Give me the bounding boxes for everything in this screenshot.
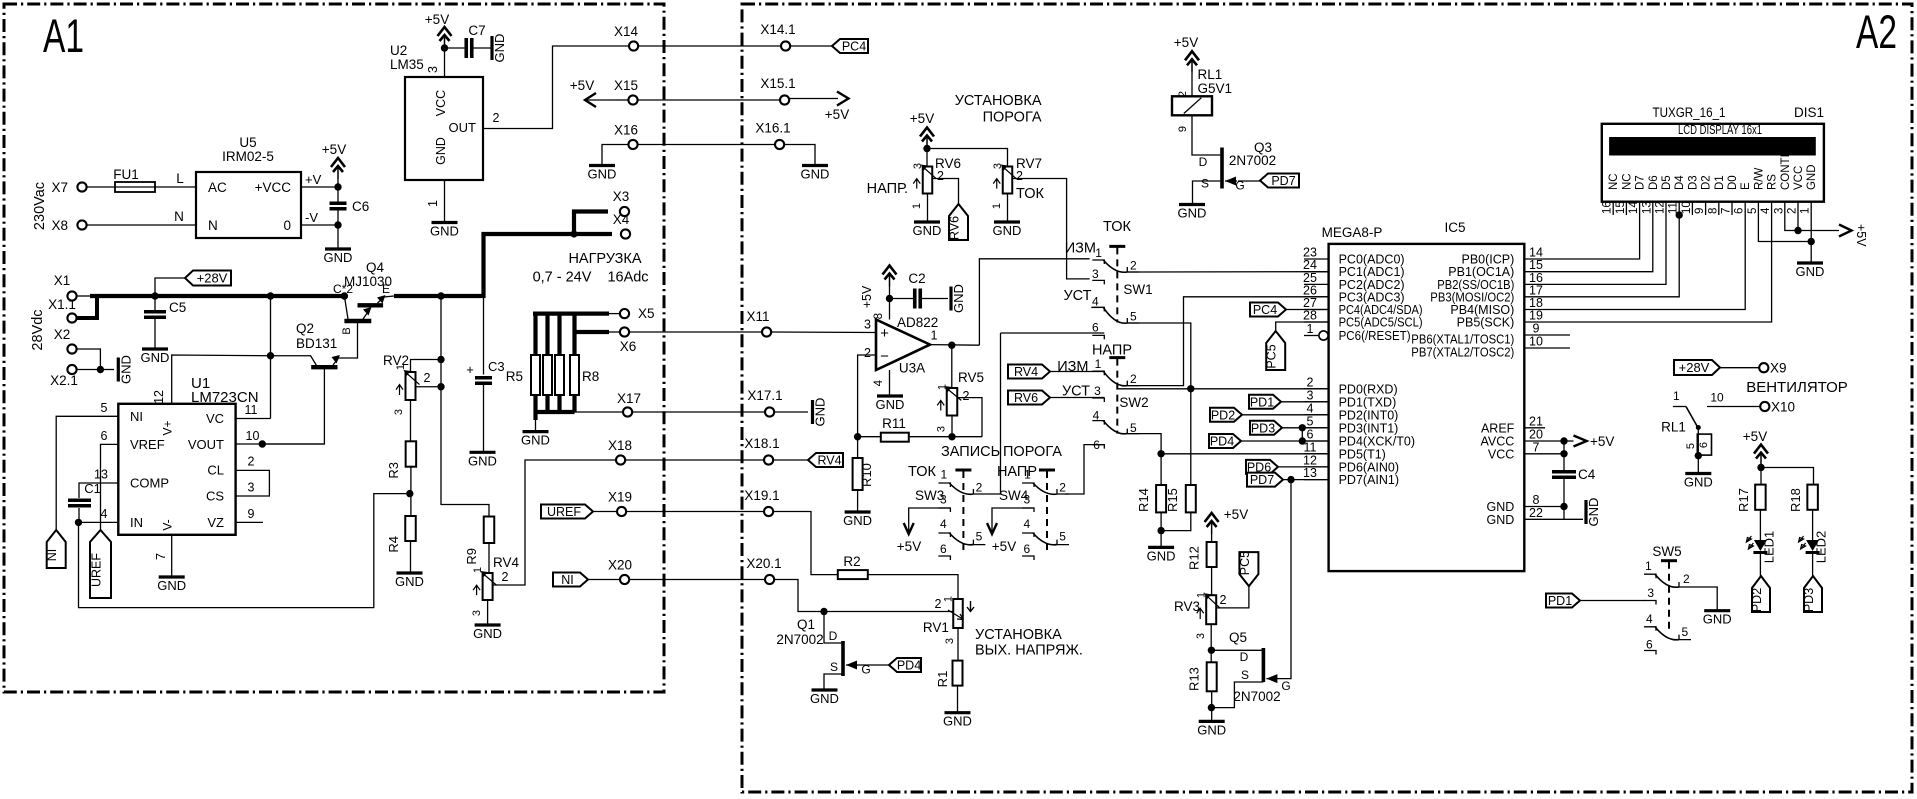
svg-text:R/W: R/W [1753,168,1765,191]
svg-text:6: 6 [1646,638,1653,652]
ground below R1 [945,711,971,714]
flag PC4 at X14.1 [832,39,868,53]
fuse FU1 [115,182,155,192]
node X2 gnd junction [97,366,104,373]
wire PB to LCD pin 18 [1545,215,1745,310]
svg-text:ТОК: ТОК [908,464,936,480]
Q4 inner emitter arrow [363,309,370,319]
svg-text:6: 6 [940,542,947,556]
svg-text:4: 4 [1092,295,1099,309]
R11 left wire [858,436,881,438]
node RV5/R11 [948,433,955,440]
svg-text:+5V: +5V [322,142,346,157]
ground below R10 [845,510,871,513]
svg-text:1: 1 [1673,389,1680,403]
flag RV6 to SW2 [1008,391,1050,405]
R5 top stub [533,314,537,355]
flag RV6 below (up) [949,204,968,240]
transistor Q4 MJ1030 bars [344,319,371,323]
resistor R9 [484,517,495,544]
ground below Q3 [1179,203,1205,206]
svg-text:RV3: RV3 [1174,599,1200,614]
svg-text:5: 5 [101,401,108,415]
node LED +5V [1757,464,1764,471]
svg-text:X14.1: X14.1 [760,22,795,37]
svg-text:PD2: PD2 [1211,408,1235,422]
RV5 pin3 down [951,416,953,437]
svg-text:21: 21 [1529,414,1543,428]
svg-text:PC4: PC4 [842,40,866,54]
RV6 bottom to GND [927,194,929,223]
svg-text:X6: X6 [620,339,637,354]
svg-text:2: 2 [937,169,944,183]
svg-text:LED1: LED1 [1762,531,1777,564]
svg-text:УСТАНОВКА: УСТАНОВКА [975,627,1062,643]
svg-text:3: 3 [393,409,405,415]
svg-text:5: 5 [1130,310,1137,324]
node R13 bottom [1208,704,1215,711]
+5V arrow RL1 [1185,51,1199,60]
R7 bottom stub [557,395,561,412]
node PD4 [1299,437,1306,444]
connector X9 [1759,363,1768,372]
wire PB to LCD pin 19 [1545,215,1772,322]
resistor R18 [1807,485,1818,510]
svg-text:GND: GND [1684,475,1713,490]
ground below R13 [1199,720,1225,723]
flag PD6 [1246,460,1278,474]
svg-text:VC: VC [206,411,224,426]
ground below C6 [325,247,351,250]
potentiometer RV7 [1003,167,1013,194]
svg-text:12: 12 [152,390,166,404]
Q4 collector diag [344,296,348,319]
svg-text:D7: D7 [1635,175,1647,190]
svg-text:1: 1 [991,203,1003,209]
svg-text:+V: +V [305,172,322,187]
svg-text:X17.1: X17.1 [747,388,782,403]
svg-text:PD3(INT1): PD3(INT1) [1339,421,1399,435]
svg-text:RV1: RV1 [923,620,949,635]
resistor R7 [555,355,564,395]
wire bus to RV2 chain [441,296,489,517]
svg-text:11: 11 [245,403,258,417]
svg-text:Q1: Q1 [797,617,815,632]
IC5 left pins PC0-PC5 PD0-PD7 [1304,258,1329,260]
svg-text:1: 1 [1095,246,1102,260]
wire X2.1 to gnd node [77,369,101,371]
svg-text:D1: D1 [1714,175,1726,190]
svg-text:5: 5 [1747,208,1759,214]
svg-text:D0: D0 [1727,175,1739,190]
potentiometer RV5 [947,388,958,416]
svg-text:X19: X19 [608,490,632,505]
AVCC-VCC-C4 vertical [1563,441,1565,470]
node AVCC [1560,437,1567,444]
svg-text:ЗАПИСЬ: ЗАПИСЬ [941,444,1000,460]
svg-text:3: 3 [471,610,483,616]
svg-text:PD0(RXD): PD0(RXD) [1339,382,1398,396]
svg-text:R17: R17 [1736,488,1751,512]
wire X16 to GND [602,145,628,166]
LCD VCC/CONTR to +5V [1785,215,1839,231]
flag PC5 below pin28 (up) [1266,331,1285,370]
wire to gnd bar [100,369,114,371]
svg-text:0,7 - 24V: 0,7 - 24V [533,270,592,286]
svg-text:ПОРОГА: ПОРОГА [983,110,1042,126]
main +28V bus right of Q4 [394,234,612,296]
node PD3 [1299,424,1306,431]
node +28V tap [151,292,158,299]
node -V junction [334,221,341,228]
R15 top wire [1190,454,1192,485]
ground below Q1 [812,688,838,691]
svg-text:+5V: +5V [1743,429,1767,444]
wire U2 pin1 down [444,180,446,222]
svg-text:1: 1 [395,364,407,370]
flag UREF below U1 (up) [90,530,111,598]
svg-text:УСТАНОВКА: УСТАНОВКА [955,93,1042,109]
U1 pin4 IN stub [79,521,119,523]
svg-text:U2: U2 [390,43,407,58]
svg-text:28: 28 [1303,309,1317,323]
svg-text:BD131: BD131 [296,336,337,351]
wire X7 to FU1 [87,186,115,188]
svg-text:GND: GND [324,250,353,265]
svg-text:ТОК: ТОК [1103,219,1131,235]
svg-text:3: 3 [864,318,871,332]
wire +5V arrow stem [337,166,339,187]
resistor R10 [853,458,863,490]
svg-text:PC5(ADC5/SCL): PC5(ADC5/SCL) [1339,316,1423,330]
+5V stem RL1 [1191,59,1193,96]
R14 bottom [1160,512,1162,530]
connector X15 [628,95,637,104]
resistor R5 [531,355,540,395]
svg-text:+5V: +5V [1590,434,1614,449]
SW2 pin6 wire [1065,445,1104,494]
ground below R14/R15 [1148,546,1174,549]
op-amp U3A AD822 [876,320,930,371]
svg-text:7: 7 [1533,440,1540,454]
connector X18 [616,455,625,464]
PD7 to Q5 gate [1278,480,1291,679]
U3A pin4 down [889,370,891,396]
svg-text:R1: R1 [935,671,950,688]
svg-text:DIS1: DIS1 [1794,105,1824,120]
svg-text:X17: X17 [617,391,641,406]
flag RV4 to SW2 [1008,365,1050,379]
svg-text:CS: CS [206,489,224,504]
wire pin10 to X10 [1707,406,1760,408]
svg-text:X2: X2 [54,327,71,342]
svg-text:GND: GND [1796,264,1825,279]
ground below RL1 contact [1685,472,1711,475]
svg-text:D: D [1240,650,1249,664]
ground below U2 [432,221,458,224]
LED1 [1754,540,1767,551]
+28V flag [185,271,231,286]
svg-text:PC5: PC5 [1265,344,1279,368]
PD3-PD4 tie [1301,428,1303,441]
U1 pin6 VREF wire [101,444,119,530]
wire X6-X11 [629,331,762,333]
svg-text:X11: X11 [746,309,769,324]
wire X14-X14.1 [638,45,781,47]
resistor R2 [838,570,868,579]
svg-text:4: 4 [1307,401,1314,415]
connector X19 [617,507,626,516]
U3A pin2 wire [858,355,876,437]
ground below U3A [877,394,903,397]
connector X4 [621,229,630,238]
svg-text:8: 8 [1707,208,1719,214]
svg-text:S: S [1241,668,1249,682]
R1 to GND [957,686,959,713]
capacitor C6 [330,203,347,209]
R5 bottom stub [533,395,537,412]
node R14/R15 gnd [1157,527,1164,534]
node C4 gnd [1560,503,1567,510]
svg-text:2: 2 [424,371,431,385]
svg-text:R9: R9 [464,548,479,565]
svg-text:PB7(XTAL2/TOSC2): PB7(XTAL2/TOSC2) [1411,346,1514,360]
wire U5 0 to junction [301,224,338,226]
svg-text:+28V: +28V [197,271,228,286]
wire RV6 top [926,149,928,167]
svg-text:13: 13 [1303,466,1317,480]
svg-text:12: 12 [1655,201,1667,214]
svg-text:6: 6 [101,429,108,443]
svg-text:GND: GND [434,137,448,165]
wire to C2 [890,298,915,300]
svg-text:1: 1 [1800,208,1812,214]
+5V down arrow SW4 [987,523,997,534]
svg-text:ВЕНТИЛЯТОР: ВЕНТИЛЯТОР [1746,379,1848,396]
svg-text:2N7002: 2N7002 [1233,689,1280,704]
svg-text:GND: GND [1147,548,1176,563]
svg-text:9: 9 [1177,126,1189,132]
svg-text:D6: D6 [1648,175,1660,190]
svg-text:5: 5 [1130,421,1137,435]
R17 top wire [1760,468,1762,485]
PD5 long wire [1161,453,1329,455]
svg-text:VCC: VCC [1488,447,1514,461]
svg-text:X1: X1 [54,273,71,288]
node RV2 pin1 [437,356,444,363]
svg-text:6: 6 [1698,442,1710,448]
svg-text:X16.1: X16.1 [755,121,790,136]
svg-text:5: 5 [1307,414,1314,428]
node RV2 wiper [437,383,444,390]
U1 pin11 VC stub [236,418,271,420]
resistor R12 [1207,542,1217,567]
svg-text:2: 2 [1787,208,1799,214]
svg-text:2: 2 [493,111,500,125]
svg-text:GND: GND [813,398,828,427]
svg-text:7: 7 [154,553,168,560]
svg-text:GND: GND [913,223,942,238]
R7 top stub [557,314,561,355]
wire C6 bottom to -V [337,209,339,225]
wire C6 top [337,187,339,203]
wire X11 to U3A pin3 [771,331,876,334]
PD7 wire [1283,479,1329,481]
svg-text:RL1: RL1 [1198,67,1223,82]
ground below shunt [523,430,549,433]
svg-text:X3: X3 [613,189,630,204]
node U3A vcc [886,295,893,302]
capacitor C3 (polar) [475,378,492,384]
svg-text:GND: GND [395,574,424,589]
ground X2 (rotated) [117,358,120,382]
svg-text:+VCC: +VCC [255,180,292,195]
board A1 dash-dot border [4,4,664,692]
svg-text:GND: GND [951,284,966,313]
potentiometer RV4 [483,573,493,600]
R12 to RV3 [1211,567,1213,595]
flag PD4 [1209,434,1241,448]
to R18 [1761,468,1814,485]
svg-text:LM35: LM35 [390,57,424,72]
svg-text:+5V: +5V [425,12,449,27]
svg-text:+5V: +5V [910,111,934,126]
wire bus to VC chain [270,296,272,419]
svg-text:10: 10 [1710,391,1724,405]
svg-text:4: 4 [940,517,947,531]
svg-text:FU1: FU1 [113,167,139,182]
svg-text:R18: R18 [1788,488,1803,512]
svg-text:4: 4 [1646,612,1653,626]
svg-text:COMP: COMP [130,476,169,491]
svg-text:PB5(SCK): PB5(SCK) [1457,316,1515,330]
svg-text:GND: GND [943,714,972,729]
svg-text:13: 13 [1641,201,1653,214]
PD7 flag to Q3 gate [1238,180,1260,182]
wire bus to C5 [154,296,156,312]
svg-text:PD3: PD3 [1802,588,1816,612]
svg-text:GND: GND [157,578,186,593]
connector X17.1 [765,407,774,416]
connector X16 [628,140,637,149]
svg-text:B: B [341,327,353,334]
resistor R15 [1186,485,1196,512]
svg-text:3: 3 [248,481,255,495]
svg-text:R11: R11 [882,416,906,431]
wire C7 to GND [472,47,492,49]
svg-text:X18.1: X18.1 [744,436,779,451]
svg-text:230Vac: 230Vac [32,182,48,230]
svg-text:PD2(INT0): PD2(INT0) [1339,408,1399,422]
+5V arrow U3A [883,266,897,275]
svg-text:+5V: +5V [860,285,874,308]
IC5 reset pin PC6 [1304,335,1318,337]
transistor Q1 2N7002 [841,641,845,676]
relay coil RL1 G5V1 [1172,96,1212,115]
shunt bottom bus [534,410,575,414]
resistor R4 [405,516,416,541]
svg-text:D3: D3 [1687,175,1699,190]
svg-text:GND: GND [141,350,170,365]
output to RV5 [951,345,953,388]
connector X20 [620,575,629,584]
wire FU1 to U5 AC [155,186,196,188]
svg-text:NI: NI [130,409,143,424]
LCD R/W+GND to ground [1758,215,1811,242]
RV2 wiper wire [416,386,442,388]
svg-text:2: 2 [1177,91,1189,97]
IC5 right pins PB0-PB7 AREF AVCC VCC GND [1524,258,1545,260]
C1 bottom to IN [78,508,80,522]
U1 CL-CS loop [236,470,270,496]
node RL1 gnd [1695,452,1702,459]
connector X1.1 [67,313,76,322]
U1 pin9 VZ stub [236,521,263,523]
+5V stem R12 [1211,521,1213,542]
svg-text:+: + [880,325,889,342]
svg-text:2N7002: 2N7002 [1229,153,1276,168]
feedback IN to R3R4 node [79,494,407,608]
svg-text:D5: D5 [1661,175,1673,190]
RV4 pin3 to GND [487,600,489,625]
PD4 flag to Q1 gate [858,664,889,666]
+5V arrow RV6/RV7 [920,128,934,137]
wire U5 +VCC to +5V node [301,186,338,188]
svg-text:RV6: RV6 [1014,391,1038,405]
svg-text:2: 2 [1059,481,1066,495]
VCC wire [1545,453,1564,455]
svg-text:CONTR: CONTR [1780,149,1792,190]
resistor R11 [881,433,909,442]
svg-text:2: 2 [864,346,871,360]
to gnd [1160,531,1162,548]
wire X16.1 to GND [784,145,815,166]
svg-text:R4: R4 [386,536,401,553]
svg-text:X7: X7 [51,180,68,195]
Q2 emitter with arrow [333,323,358,365]
GND8 wire [1545,506,1564,508]
svg-text:PD1(TXD): PD1(TXD) [1339,395,1397,409]
ground right of X17.1 (rotated) [811,400,814,424]
R6 top stub [545,314,549,355]
svg-text:NC: NC [1608,173,1620,190]
U3A output [930,344,979,347]
connector X14 [629,41,638,50]
svg-text:SW1: SW1 [1123,282,1152,297]
svg-text:GND: GND [1487,513,1515,527]
node +V junction [334,183,341,190]
node RV3/R13/Q5 [1208,647,1215,654]
svg-text:GND: GND [521,433,550,448]
resistor R14 [1156,485,1166,512]
R9 to RV4 [488,543,490,573]
svg-text:X2.1: X2.1 [50,373,78,388]
ground below U1 [159,575,185,578]
svg-text:6: 6 [1024,542,1031,556]
wire X8 to U5 N [87,224,196,226]
svg-text:S: S [1201,177,1209,191]
Q2 base wire down to VOUT line [262,369,324,444]
svg-text:VOUT: VOUT [188,437,224,452]
svg-text:4: 4 [101,507,108,521]
resistor R3 [406,441,417,466]
ground right of C7 (rotated) [490,36,493,60]
svg-text:PD4: PD4 [897,659,921,673]
wire X20-X20.1 [629,579,765,581]
flag NI at X20 [553,573,588,587]
U1 pin13 COMP wire [79,483,118,498]
svg-text:1: 1 [931,329,938,343]
